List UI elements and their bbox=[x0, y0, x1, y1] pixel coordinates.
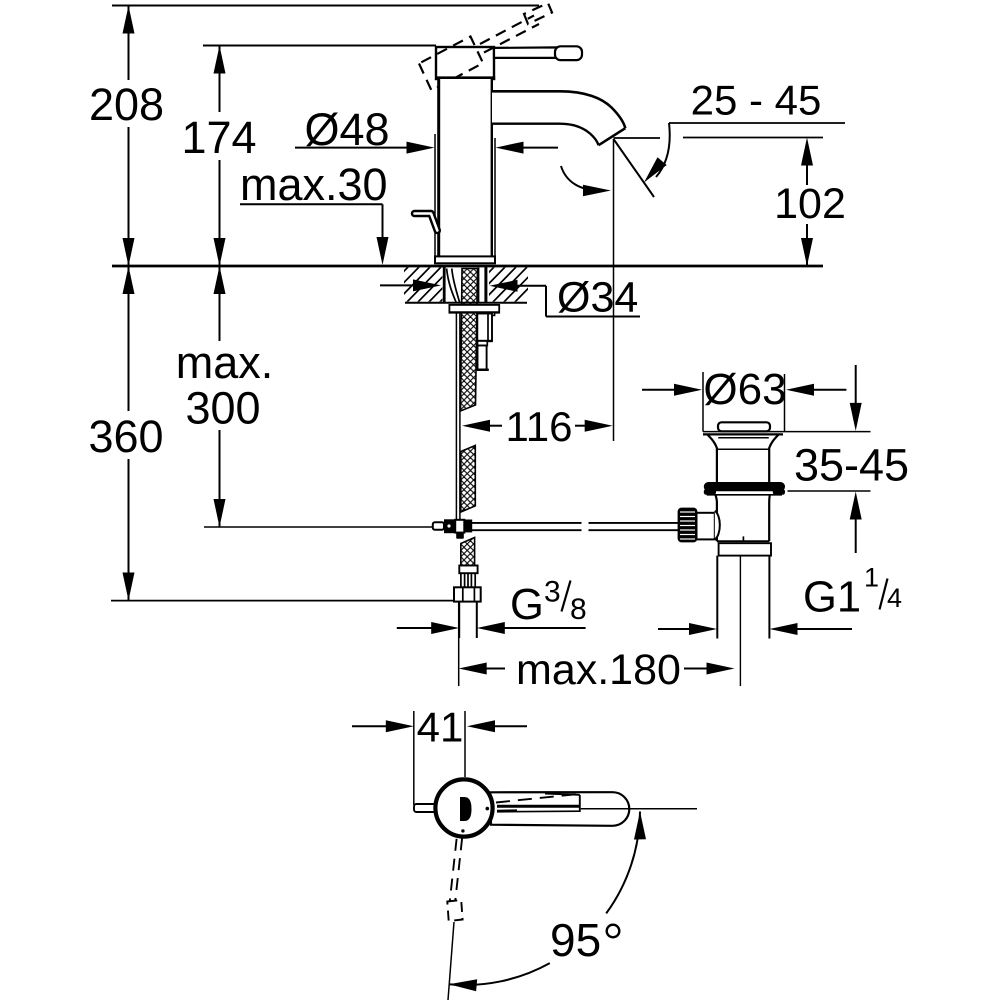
horizontal linkage bar segment 1 bbox=[472, 522, 582, 524]
angle arc 95 deg upper segment bbox=[606, 812, 640, 914]
spout outlet extension line down to 116 bbox=[613, 139, 615, 441]
drain tailpipe bbox=[716, 556, 718, 639]
dimension 208 vertical line bbox=[123, 6, 135, 267]
angle arc 95 deg lower segment bbox=[449, 963, 550, 985]
svg-text:300: 300 bbox=[185, 382, 260, 433]
connector lower block bbox=[478, 346, 487, 370]
svg-text:1: 1 bbox=[864, 563, 879, 593]
line under gasket bbox=[707, 494, 782, 496]
drain centerline bbox=[739, 556, 741, 686]
counter bottom line bbox=[405, 302, 527, 304]
svg-text:G: G bbox=[510, 581, 544, 629]
curved leader arrow from 25-45 to stream line bbox=[656, 123, 670, 177]
curved arrow under spout bbox=[561, 166, 600, 191]
lever handle raised position (dashed) bbox=[419, 3, 552, 91]
dimension 34 arrows bbox=[380, 284, 417, 286]
mounting washer under counter bbox=[449, 305, 499, 313]
dimension diameter 63 bbox=[642, 389, 676, 391]
svg-text:174: 174 bbox=[181, 112, 256, 163]
drain flange top line bbox=[703, 433, 783, 435]
top view: cartridge slot bbox=[460, 797, 472, 821]
shank connector tube bbox=[477, 314, 492, 342]
top view: pull rod stub bbox=[414, 804, 439, 812]
drain valve body bbox=[716, 495, 717, 542]
dimension max.300 vertical line bbox=[214, 266, 226, 527]
svg-text:3: 3 bbox=[544, 576, 561, 609]
knob connector housing bbox=[697, 513, 715, 540]
braided hose segment 3 bbox=[461, 538, 475, 566]
top view: dimension 41 bbox=[413, 711, 415, 805]
svg-text:G1: G1 bbox=[803, 574, 861, 622]
dimension 35-45 bbox=[855, 365, 857, 405]
hose hex nut G3/8 bbox=[454, 587, 481, 601]
svg-text:360: 360 bbox=[88, 411, 163, 462]
lever handle solid bbox=[494, 47, 557, 58]
top extension line (raised handle top) bbox=[112, 5, 539, 7]
extension lines diameter 48 bbox=[434, 134, 436, 256]
dimension 116 bbox=[462, 420, 490, 432]
top view: lever axis centerline bbox=[581, 808, 697, 810]
shank hole walls bbox=[443, 267, 446, 302]
svg-text:Ø34: Ø34 bbox=[557, 274, 638, 322]
junction block left bbox=[444, 519, 455, 533]
drain adjustment knob (knurled) bbox=[678, 508, 698, 543]
dimension 360 vertical line bbox=[123, 266, 135, 601]
svg-text:35-45: 35-45 bbox=[794, 440, 909, 491]
drain neck bbox=[707, 434, 717, 482]
counter hatching right bbox=[458, 265, 551, 304]
faucet body bbox=[439, 79, 492, 257]
bottom reference line (360 end) bbox=[111, 600, 453, 602]
top view: lever rotated position (dashed) bbox=[450, 838, 462, 901]
hose end ribs bbox=[461, 573, 475, 587]
linkage junction pin bbox=[433, 522, 444, 529]
svg-text:102: 102 bbox=[774, 180, 846, 228]
svg-text:208: 208 bbox=[89, 79, 164, 130]
top view: screw dots bbox=[486, 807, 490, 811]
drain push cap bbox=[718, 422, 770, 431]
svg-text:4: 4 bbox=[887, 583, 902, 613]
drain rubber gasket bbox=[704, 482, 785, 491]
top view: lever inner detail bbox=[497, 805, 580, 808]
pop-up rod curved top bbox=[447, 269, 457, 304]
svg-text:max.30: max.30 bbox=[240, 159, 388, 210]
svg-text:41: 41 bbox=[417, 704, 464, 751]
counter hatching left bbox=[372, 265, 476, 304]
pop-up rod vertical lines bbox=[455, 313, 457, 520]
dimension 102 vertical bbox=[801, 138, 813, 166]
connector step bbox=[478, 341, 488, 346]
top view: faucet body circle bbox=[435, 779, 492, 836]
dimension G1 1/4 arrows bbox=[658, 628, 691, 630]
horizontal linkage bar segment 2 bbox=[589, 522, 680, 524]
svg-text:95: 95 bbox=[550, 914, 601, 966]
extension line for 174 (faucet body top) bbox=[203, 45, 436, 47]
braided hose segment 2 bbox=[461, 446, 476, 513]
svg-text:max.: max. bbox=[176, 337, 274, 388]
faucet head (cartridge cap) bbox=[436, 47, 494, 79]
dimension 174 vertical line bbox=[214, 46, 226, 267]
hose end collar bbox=[459, 566, 477, 574]
svg-text:Ø63: Ø63 bbox=[703, 365, 786, 414]
dimension max.180 bbox=[458, 602, 460, 687]
supply pipe end bbox=[458, 602, 460, 638]
water stream direction line bbox=[614, 139, 655, 197]
rotated lever centerline bbox=[448, 922, 454, 1000]
drain union collar bbox=[719, 543, 771, 555]
pop-up linkage horizontal reference line bbox=[204, 526, 433, 528]
pop-up pull rod knob at back of body bbox=[415, 214, 438, 231]
junction square bbox=[455, 520, 464, 533]
svg-text:8: 8 bbox=[570, 593, 587, 626]
counter top line bbox=[112, 265, 823, 268]
svg-text:max.180: max.180 bbox=[516, 646, 681, 694]
spout bbox=[492, 91, 625, 145]
junction lower nub bbox=[456, 533, 464, 539]
junction block right bbox=[464, 520, 472, 533]
dimension G3/8 arrows bbox=[397, 627, 433, 629]
svg-text:25 - 45: 25 - 45 bbox=[691, 77, 822, 124]
base flange bbox=[435, 256, 495, 263]
braided hose segment 1 bbox=[461, 269, 478, 412]
svg-text:116: 116 bbox=[506, 403, 573, 450]
top view: lever capsule bbox=[490, 792, 629, 826]
